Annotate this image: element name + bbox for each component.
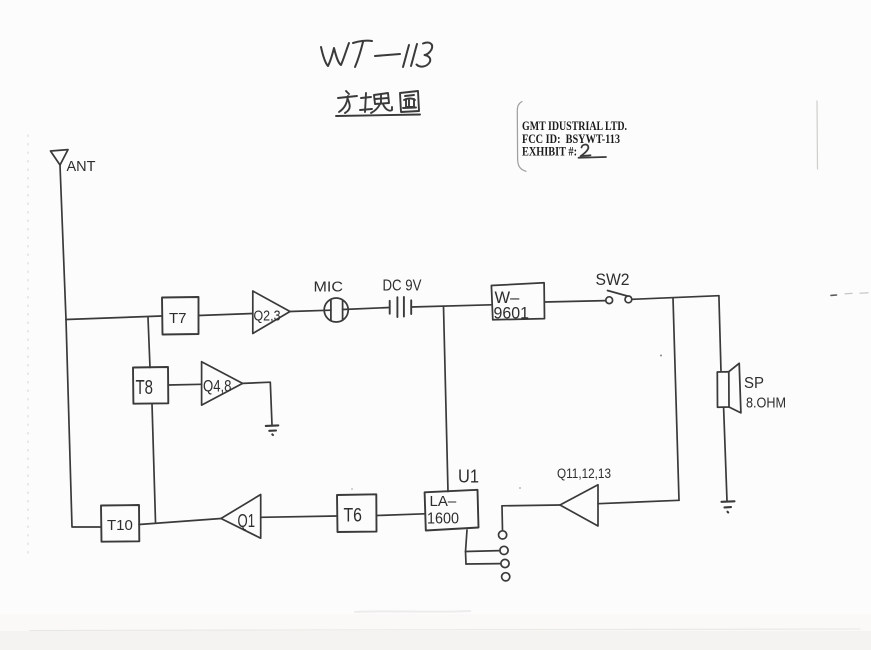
wire T10 to Q1 [139,519,221,525]
wire Q2,3 to MIC [290,310,331,311]
svg-text:T7: T7 [169,310,187,327]
wire antenna stem [60,165,66,320]
connector pins [499,531,510,581]
amplifier Q11,12,13 [560,485,598,526]
speaker SP [717,363,741,413]
wire node down to LA-1600 [444,307,449,492]
wire left vertical to T10 [66,320,101,528]
FCC label box [517,101,817,171]
title WT-113 [321,41,432,67]
wire SW2 to right corner [632,296,719,300]
wire LA-1600 bottom to pins [466,530,468,564]
wire T8 to Q4,8 [168,383,201,386]
wire corner down to speaker [719,296,721,372]
microphone MIC [324,298,348,322]
wire antenna to T7 [66,316,162,320]
switch SW2 [606,291,632,304]
wire T8 bottom down to T10 wire [152,404,156,522]
wire down to pin 1 [501,506,504,531]
amplifier Q1 [221,495,261,539]
dust speck [831,294,837,296]
wire W-9601 to SW2 [545,301,606,302]
wire T6 to LA-1600 [377,514,425,516]
svg-text:Q4,8: Q4,8 [203,377,232,396]
svg-text:8.OHM: 8.OHM [746,395,786,412]
subtitle underline [336,115,420,117]
page bottom edge shading [0,614,871,631]
wire bottom to Q11 right [598,500,679,503]
amplifier Q2,3 [253,291,290,334]
wire Q4,8 to ground [243,382,272,425]
wire T7 to Q2,3 [199,314,253,316]
svg-text:LA–: LA– [430,493,457,510]
battery DC 9V [390,297,412,317]
transformer T8 [133,367,168,404]
IC U1 LA-1600 [425,490,479,531]
svg-text:Q1: Q1 [238,510,256,531]
svg-text:SP: SP [744,375,764,392]
wire Q1 to T6 [261,516,337,517]
transformer T7 [162,297,199,335]
svg-text:DC 9V: DC 9V [383,278,423,295]
ground (Q4,8) [266,425,279,435]
module W-9601 [491,283,544,320]
wire speaker to ground [724,407,727,501]
wire junction down to T8 [148,318,150,368]
antenna ANT [51,150,69,165]
svg-text:EXHIBIT #:: EXHIBIT #: [522,144,577,158]
subtitle 方塊圖 (handwritten) [336,91,420,116]
svg-text:MIC: MIC [314,279,344,296]
svg-text:Q2,3: Q2,3 [254,308,281,325]
svg-text:1600: 1600 [427,511,459,528]
left page edge speckle [27,135,29,560]
wire MIC to battery [343,308,390,310]
svg-text:SW2: SW2 [596,270,630,289]
handwritten exhibit number 2 [581,145,591,157]
transformer T10 [101,505,139,542]
amplifier Q4,8 [202,362,243,405]
wire Q11 apex left [502,504,560,507]
svg-text:U1: U1 [458,467,479,487]
svg-text:Q11,12,13: Q11,12,13 [557,466,611,481]
svg-text:ANT: ANT [67,159,96,175]
svg-text:9601: 9601 [494,305,530,323]
svg-text:T10: T10 [107,517,133,534]
wire battery to W-9601 [411,305,491,307]
transformer T6 [337,494,377,532]
ground (speaker) [722,501,735,512]
wire node down to Q11 line [673,298,679,500]
svg-text:T8: T8 [136,377,154,399]
svg-text:T6: T6 [344,505,363,526]
